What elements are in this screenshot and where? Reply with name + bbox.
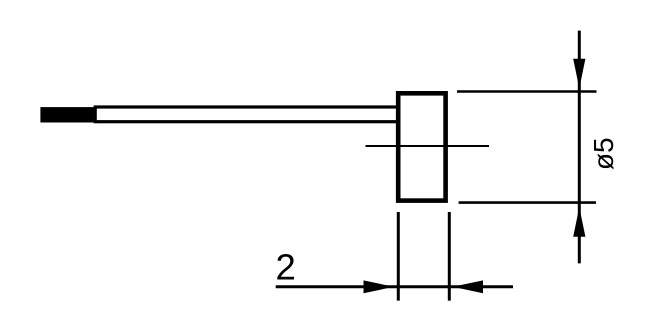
svg-text:2: 2 — [276, 247, 296, 288]
svg-text:ø5: ø5 — [588, 137, 619, 170]
